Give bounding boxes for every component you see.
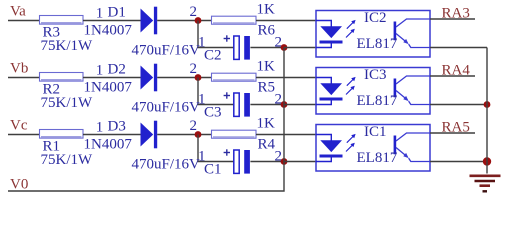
svg-text:Vb: Vb <box>10 60 28 76</box>
svg-text:75K/1W: 75K/1W <box>41 152 94 168</box>
svg-text:1: 1 <box>96 6 104 22</box>
svg-text:RA5: RA5 <box>442 119 470 135</box>
resistor R2 75K/1W <box>40 73 94 112</box>
svg-text:470uF/16V: 470uF/16V <box>132 100 201 116</box>
junction node after D1 <box>195 17 202 24</box>
svg-text:EL817: EL817 <box>357 93 398 109</box>
svg-text:1N4007: 1N4007 <box>84 80 133 96</box>
wire D1 cathode to R6 <box>157 20 211 22</box>
ground <box>470 176 501 192</box>
svg-text:Va: Va <box>10 3 26 19</box>
svg-text:1K: 1K <box>257 116 276 132</box>
wire IC1 collector to RA5 <box>430 132 475 134</box>
wire IC3 collector to RA4 <box>430 75 475 77</box>
wire C1 to junction <box>250 161 284 163</box>
svg-text:RA4: RA4 <box>442 62 471 78</box>
svg-text:D2: D2 <box>108 62 126 78</box>
wire R5 to IC3 LED anode <box>256 77 316 79</box>
wire ground rail vertical <box>486 48 488 174</box>
wire junction to IC3 LED cathode <box>284 104 316 106</box>
optocoupler IC2 EL817 <box>316 10 430 57</box>
wire R4 to IC1 LED anode <box>256 134 316 136</box>
wire C3 to junction <box>250 104 284 106</box>
wire junction down to capacitor C2 <box>198 21 234 48</box>
svg-text:IC1: IC1 <box>364 124 387 140</box>
diode D3 1N4007 <box>84 119 158 153</box>
svg-text:IC3: IC3 <box>364 67 387 83</box>
wire IC3 emitter to ground rail <box>430 104 487 106</box>
svg-text:C1: C1 <box>204 162 222 178</box>
resistor R4 1K <box>212 116 276 153</box>
wire Vc to R1 <box>8 134 40 136</box>
wire V0 rail <box>8 48 284 192</box>
svg-text:1: 1 <box>96 120 104 136</box>
wire Va to R3 <box>8 20 40 22</box>
svg-text:75K/1W: 75K/1W <box>41 95 94 111</box>
svg-text:R4: R4 <box>258 137 276 153</box>
svg-text:1: 1 <box>96 63 104 79</box>
svg-text:1K: 1K <box>257 59 276 75</box>
wire junction to IC2 LED cathode <box>284 47 316 49</box>
diode D1 1N4007 <box>84 5 158 39</box>
svg-text:470uF/16V: 470uF/16V <box>132 43 201 59</box>
resistor R6 1K <box>212 2 276 39</box>
resistor R5 1K <box>212 59 276 96</box>
wire IC2 emitter to ground rail <box>430 47 487 49</box>
optocoupler IC3 EL817 <box>316 67 430 114</box>
wire Vb to R2 <box>8 77 40 79</box>
svg-text:2: 2 <box>190 61 198 77</box>
svg-text:1N4007: 1N4007 <box>84 23 133 39</box>
svg-text:C2: C2 <box>204 48 222 64</box>
wire R2 to D2 anode <box>83 77 142 79</box>
resistor R1 75K/1W <box>40 130 94 169</box>
svg-text:D1: D1 <box>108 5 126 21</box>
wire R6 to IC2 LED anode <box>256 20 316 22</box>
svg-text:470uF/16V: 470uF/16V <box>132 157 201 173</box>
svg-text:RA3: RA3 <box>442 5 470 21</box>
junction on ground rail row 3 <box>483 157 491 165</box>
capacitor C1 470uF/16V (polarized) <box>132 149 250 177</box>
capacitor C3 470uF/16V (polarized) <box>132 92 250 120</box>
wire D2 cathode to R5 <box>157 77 211 79</box>
wire R3 to D1 anode <box>83 20 142 22</box>
wire D3 cathode to R4 <box>157 134 211 136</box>
resistor R3 75K/1W <box>40 16 94 55</box>
svg-text:1K: 1K <box>257 2 276 18</box>
wire junction down to capacitor C3 <box>198 78 234 105</box>
capacitor C2 470uF/16V (polarized) <box>132 35 250 63</box>
optocoupler IC1 EL817 <box>316 124 430 171</box>
wire IC2 collector to RA3 <box>430 18 475 20</box>
svg-text:EL817: EL817 <box>357 150 398 166</box>
wire R1 to D3 anode <box>83 134 142 136</box>
svg-text:D3: D3 <box>108 119 126 135</box>
junction on V0 rail row 1 <box>281 44 288 51</box>
svg-text:R5: R5 <box>258 80 276 96</box>
svg-text:Vc: Vc <box>10 117 28 133</box>
junction on ground rail row 2 <box>484 101 491 108</box>
wire junction down to capacitor C1 <box>198 135 234 162</box>
wire C2 to junction <box>250 47 284 49</box>
wire junction to IC1 LED cathode <box>284 161 316 163</box>
svg-text:EL817: EL817 <box>357 36 398 52</box>
junction on V0 rail row 2 <box>281 101 288 108</box>
svg-text:75K/1W: 75K/1W <box>41 38 94 54</box>
diode D2 1N4007 <box>84 62 158 96</box>
svg-text:2: 2 <box>190 118 198 134</box>
junction node after D2 <box>195 74 202 81</box>
junction node after D3 <box>195 131 202 138</box>
junction on V0 rail row 3 <box>281 158 288 165</box>
svg-text:1N4007: 1N4007 <box>84 137 133 153</box>
svg-text:V0: V0 <box>10 176 28 192</box>
svg-text:2: 2 <box>190 4 198 20</box>
svg-text:IC2: IC2 <box>364 10 387 26</box>
wire IC1 emitter to ground rail <box>430 161 487 163</box>
svg-text:R6: R6 <box>258 23 276 39</box>
svg-text:C3: C3 <box>204 105 222 121</box>
